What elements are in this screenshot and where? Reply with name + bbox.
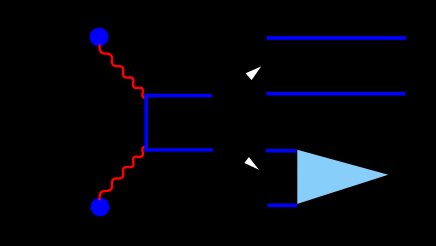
- blob (top lepton): [90, 28, 109, 47]
- remnant line (lower): [266, 92, 405, 96]
- white arrow (bottom, pointing down-right): [244, 157, 259, 170]
- jet cone: [297, 150, 388, 204]
- white arrow (top, pointing up-right): [246, 66, 262, 80]
- blob (bottom lepton): [91, 198, 110, 217]
- remnant line (upper): [267, 36, 407, 40]
- photon wavy line (top): [100, 45, 146, 97]
- outgoing quark line (bottom): [144, 148, 213, 151]
- jet quark stub (top): [266, 149, 297, 153]
- photon wavy line (bottom): [100, 147, 146, 199]
- jet quark stub (bottom): [268, 204, 298, 208]
- quark exchange line (vertical): [144, 94, 148, 152]
- outgoing quark line (top): [144, 94, 212, 98]
